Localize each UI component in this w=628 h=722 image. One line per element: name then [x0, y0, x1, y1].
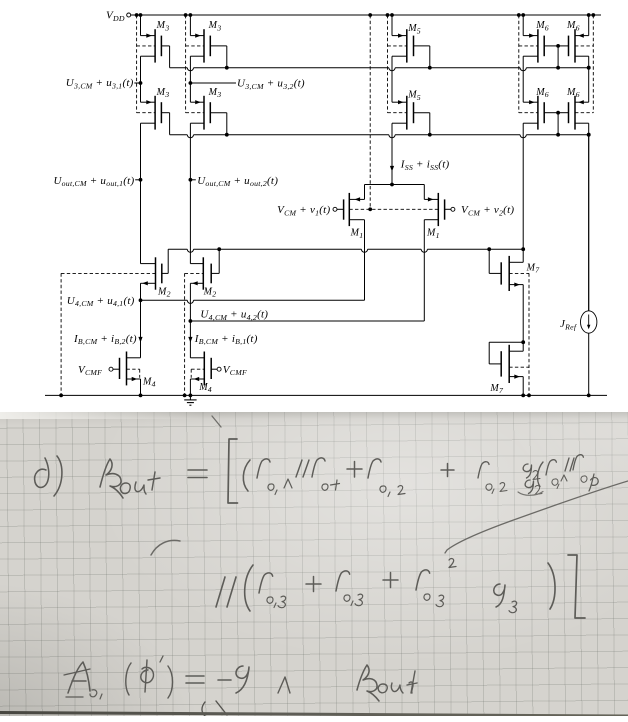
svg-text:VCMF​: VCMF​ — [223, 364, 247, 377]
svg-text:VCM​ + v1​(t): VCM​ + v1​(t) — [277, 204, 330, 217]
svg-text:M5​: M5​ — [407, 90, 421, 102]
svg-text:M1​: M1​ — [426, 228, 440, 240]
svg-text:Uout,CM​ + uout,1​(t): Uout,CM​ + uout,1​(t) — [53, 175, 134, 188]
svg-text:M7​: M7​ — [526, 262, 541, 274]
svg-text:M1​: M1​ — [350, 228, 364, 240]
svg-text:M7​: M7​ — [489, 383, 504, 395]
svg-text:M6​: M6​ — [566, 20, 580, 32]
svg-text:Uout,CM​ + uout,2​(t): Uout,CM​ + uout,2​(t) — [197, 175, 278, 188]
svg-text:M6​: M6​ — [566, 87, 580, 99]
svg-text:VCMF​: VCMF​ — [78, 364, 102, 377]
svg-text:U3,CM​ + u3,2​(t): U3,CM​ + u3,2​(t) — [237, 78, 305, 91]
svg-text:M3​: M3​ — [156, 87, 170, 99]
svg-text:M6​: M6​ — [535, 20, 549, 32]
svg-text:IB,CM​ + iB,2​(t): IB,CM​ + iB,2​(t) — [73, 333, 137, 346]
svg-text:VDD​: VDD​ — [106, 9, 125, 22]
svg-text:M5​: M5​ — [407, 23, 421, 35]
svg-text:U4,CM​ + u4,1​(t): U4,CM​ + u4,1​(t) — [67, 295, 135, 308]
svg-text:M4​: M4​ — [142, 376, 156, 388]
svg-text:M2​: M2​ — [203, 286, 217, 298]
svg-text:VCM​ + v2​(t): VCM​ + v2​(t) — [461, 204, 514, 217]
svg-text:M4​: M4​ — [198, 382, 212, 394]
svg-text:U4,CM​ + u4,2​(t): U4,CM​ + u4,2​(t) — [200, 309, 268, 322]
svg-text:M2​: M2​ — [157, 286, 171, 298]
svg-text:ISS​ + iSS​(t): ISS​ + iSS​(t) — [400, 158, 450, 171]
svg-text:M3​: M3​ — [208, 87, 222, 99]
svg-text:JRef​: JRef​ — [560, 318, 578, 331]
svg-text:U3,CM​ + u3,1​(t): U3,CM​ + u3,1​(t) — [66, 77, 134, 90]
svg-text:M3​: M3​ — [156, 20, 170, 32]
svg-text:IB,CM​ + iB,1​(t): IB,CM​ + iB,1​(t) — [194, 333, 258, 346]
svg-text:M6​: M6​ — [535, 87, 549, 99]
svg-text:M3​: M3​ — [208, 20, 222, 32]
